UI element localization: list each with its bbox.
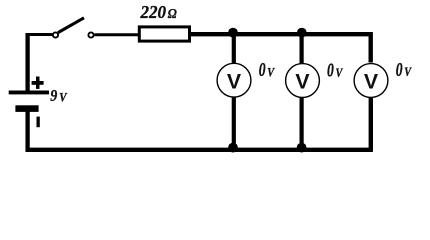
- wire: V1 down to bottom rail: [232, 97, 236, 150]
- label 0V (V2): [327, 61, 343, 82]
- svg-text:0: 0: [259, 60, 266, 81]
- svg-text:9: 9: [50, 86, 58, 105]
- voltmeter V3: [354, 64, 388, 98]
- label 0V (V3): [396, 60, 412, 81]
- wire: battery positive up to switch (left vertical + horizontal): [26, 33, 53, 91]
- switch S1 (open): [53, 18, 94, 38]
- svg-text:Ω: Ω: [168, 6, 177, 21]
- label 0V (V1): [259, 60, 275, 81]
- svg-text:0: 0: [396, 60, 403, 81]
- svg-text:V: V: [404, 64, 412, 79]
- svg-text:V: V: [295, 70, 310, 94]
- wire: branch down to V1: [232, 34, 236, 64]
- svg-text:V: V: [336, 65, 344, 80]
- node: top junction B (branch to V2): [297, 28, 307, 38]
- wire: top rail from resistor to right corner, down to voltmeter V3: [191, 34, 371, 62]
- wire: switch to resistor: [95, 33, 140, 36]
- battery B1 9V: [9, 91, 49, 112]
- svg-text:0: 0: [327, 61, 334, 82]
- wire: V2 down to bottom rail: [300, 97, 304, 150]
- wire: bottom rail and left return to battery negative: [28, 111, 373, 150]
- battery minus sign: [37, 117, 40, 128]
- svg-text:V: V: [227, 69, 242, 93]
- node: bottom junction C (V1): [228, 143, 238, 153]
- label 220 ohm: [140, 2, 177, 22]
- svg-text:V: V: [364, 70, 379, 94]
- svg-text:V: V: [267, 64, 275, 79]
- voltmeter V1: [217, 63, 251, 97]
- node: top junction A (branch to V1): [228, 28, 238, 38]
- label 9V: [50, 86, 68, 105]
- voltmeter V2: [286, 64, 320, 98]
- resistor R1: [139, 27, 189, 41]
- svg-text:220: 220: [140, 2, 166, 22]
- node: bottom junction D (V2): [297, 143, 307, 153]
- battery plus sign: [32, 77, 44, 89]
- wire: branch down to V2: [300, 34, 304, 64]
- wire: V3 down to bottom rail: [369, 97, 373, 150]
